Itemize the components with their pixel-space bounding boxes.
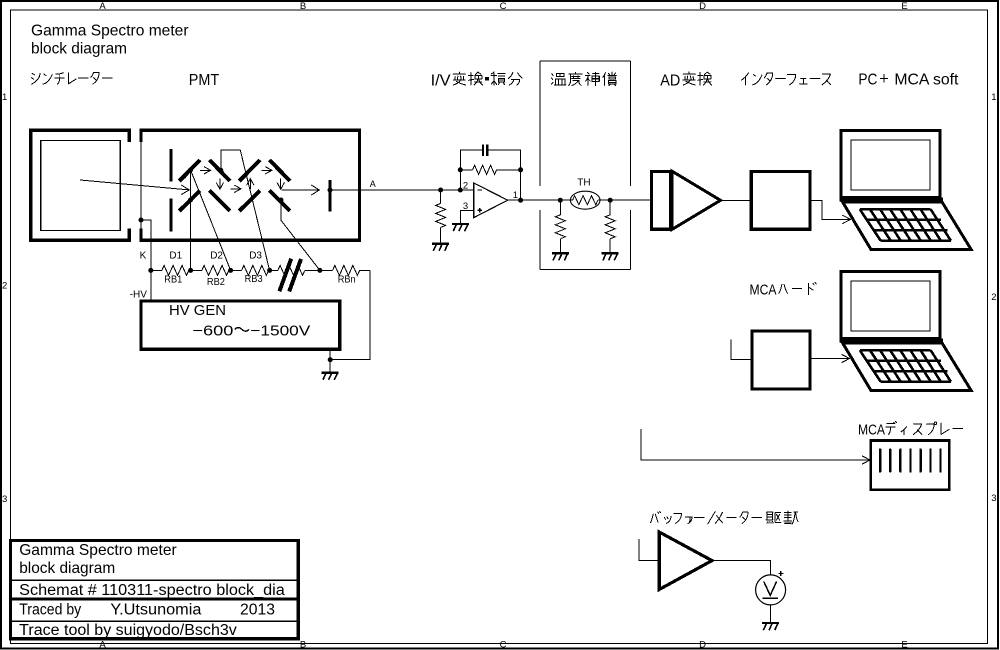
svg-text:A: A <box>99 1 106 12</box>
svg-text:TH: TH <box>577 178 590 189</box>
wire dynode1 to RB1/RB2 <box>190 170 192 270</box>
title block <box>11 541 299 639</box>
svg-text:D3: D3 <box>249 250 262 261</box>
wire AD to interface <box>721 199 752 201</box>
svg-text:Y.Utsunomia: Y.Utsunomia <box>110 601 201 618</box>
wire HV ground <box>329 351 331 372</box>
chain break marks <box>279 259 291 292</box>
junction opamp input <box>438 188 443 193</box>
svg-text:D: D <box>699 1 706 12</box>
scintillator crystal <box>41 140 120 230</box>
PC laptop 2 <box>840 272 971 391</box>
dynode top2 <box>210 160 231 181</box>
wire non-inverting input, pin 3 <box>461 210 474 223</box>
wire meter ground <box>770 605 772 623</box>
wire inverting input, pin 2 <box>460 189 474 191</box>
wire feedback riser <box>460 150 482 190</box>
svg-text:E: E <box>901 640 907 650</box>
svg-text:HV GEN: HV GEN <box>169 303 226 319</box>
svg-text:A: A <box>370 179 376 189</box>
svg-text:D: D <box>699 640 706 650</box>
svg-text:2: 2 <box>463 180 468 191</box>
wire last dynode <box>281 200 320 270</box>
ground HV <box>322 373 339 380</box>
svg-text:D1: D1 <box>169 250 182 261</box>
junction cathode <box>139 218 144 223</box>
wire MCA hard to PC <box>810 358 849 360</box>
wire chain return <box>330 270 370 359</box>
resistor compensation left <box>559 200 561 215</box>
resistor RB2 <box>202 265 229 275</box>
ground input load <box>432 244 449 251</box>
resistor RBn <box>333 265 360 275</box>
svg-text:−600: −600 <box>192 322 233 339</box>
label scintillator (katakana) <box>31 73 112 85</box>
PMT U1 housing <box>141 130 360 240</box>
junction anode <box>328 188 333 193</box>
svg-text:AD: AD <box>660 72 680 89</box>
buffer amplifier <box>659 532 712 590</box>
resistor compensation right <box>609 200 611 215</box>
svg-text:D2: D2 <box>210 250 223 261</box>
wire into MCA hard box <box>731 340 752 360</box>
svg-text:3: 3 <box>991 493 996 504</box>
svg-text:2: 2 <box>991 292 996 303</box>
MCA display block <box>871 441 950 490</box>
svg-text:block diagram: block diagram <box>31 40 127 57</box>
svg-text:RB3: RB3 <box>245 274 263 285</box>
svg-text:C: C <box>500 1 507 12</box>
resistor RB3 <box>242 265 269 275</box>
svg-text:Trace tool by suigyodo/Bsch3v: Trace tool by suigyodo/Bsch3v <box>19 622 237 639</box>
ground compensation left <box>552 253 569 260</box>
label temperature compensation <box>551 72 616 85</box>
svg-text:3: 3 <box>463 201 468 212</box>
junction feedback <box>458 167 463 172</box>
svg-text:2013: 2013 <box>240 601 275 618</box>
svg-text:B: B <box>300 640 306 650</box>
svg-text:I/V: I/V <box>431 72 451 89</box>
svg-text:E: E <box>901 1 907 12</box>
wire dynode to RB2/RB3 <box>191 170 231 270</box>
wire interface to PC <box>810 200 850 219</box>
svg-text:1: 1 <box>513 190 518 201</box>
wire K <box>141 220 151 299</box>
svg-text:2: 2 <box>2 281 7 292</box>
wire bias chain <box>151 269 162 271</box>
svg-text:1: 1 <box>991 92 996 103</box>
junction output <box>518 198 523 203</box>
svg-text:RBn: RBn <box>338 275 356 286</box>
svg-text:MCA soft: MCA soft <box>894 72 959 89</box>
voltmeter M1 <box>756 575 786 605</box>
MCA hard block <box>752 331 810 389</box>
svg-text:Gamma Spectro meter: Gamma Spectro meter <box>19 542 177 559</box>
wire anode out, node A <box>330 189 460 191</box>
svg-text:RB1: RB1 <box>164 275 182 286</box>
wire to MCA display <box>641 429 869 460</box>
junction dynode taps <box>188 168 193 173</box>
svg-text:Gamma Spectro meter: Gamma Spectro meter <box>31 23 189 40</box>
resistor hidden (chain break) <box>278 265 305 275</box>
AD converter block <box>652 172 671 230</box>
svg-text:A: A <box>99 640 106 650</box>
svg-text:−1500V: −1500V <box>250 322 310 339</box>
svg-text:PC: PC <box>858 72 877 89</box>
wire dynode2 hook <box>221 150 241 170</box>
svg-text:MCA: MCA <box>858 422 885 439</box>
svg-text:C: C <box>500 640 507 650</box>
scintillator housing <box>31 130 130 240</box>
svg-text:MCA: MCA <box>750 282 777 299</box>
svg-text:K: K <box>140 250 147 261</box>
svg-text:-HV: -HV <box>130 290 148 301</box>
svg-text:RB2: RB2 <box>207 277 225 288</box>
dynode bottom1 <box>179 191 200 212</box>
svg-text:B: B <box>300 1 306 12</box>
junction chain nodes <box>148 268 153 273</box>
svg-text:3: 3 <box>2 494 7 505</box>
HV generator box <box>141 301 340 349</box>
svg-text:Schemat # 110311-spectro block: Schemat # 110311-spectro block_dia <box>19 582 285 599</box>
PC laptop 1 <box>840 131 971 250</box>
wire TH <box>560 199 572 201</box>
label buffer/meter drive <box>651 511 762 524</box>
temperature compensation box <box>540 60 630 62</box>
interface block <box>751 172 810 230</box>
junction TH left/right <box>558 198 563 203</box>
electron path arrows <box>185 171 191 178</box>
svg-text:Traced by: Traced by <box>19 601 81 618</box>
dynode top1 <box>179 160 200 181</box>
ground pin 3 <box>452 224 469 231</box>
resistor input load <box>440 190 442 203</box>
junction HV ground <box>328 357 333 362</box>
dynode top3 <box>239 160 260 181</box>
ground compensation right <box>602 253 619 260</box>
MCA display bars <box>879 450 881 472</box>
dynode bottom2 <box>210 191 231 212</box>
label interface (katakana) <box>741 73 830 85</box>
dynode bottom4 <box>270 191 291 212</box>
dynode top4 <box>270 160 291 181</box>
wire buffer to meter <box>712 561 771 575</box>
photocathode K plates <box>170 149 173 182</box>
resistor RB1 <box>162 265 189 275</box>
wire buffer input <box>639 539 659 561</box>
wire PMT cathode side <box>140 141 142 230</box>
resistor feedback <box>460 169 472 171</box>
svg-text:PMT: PMT <box>189 72 220 89</box>
ground meter <box>762 623 779 630</box>
op-amp U1 <box>474 183 508 218</box>
anode plate <box>329 180 332 211</box>
capacitor feedback <box>482 144 484 156</box>
dynode bottom3 <box>239 191 260 212</box>
wire to AD <box>610 199 650 201</box>
gamma ray wire <box>80 180 189 190</box>
svg-text:1: 1 <box>2 92 7 103</box>
svg-text:block diagram: block diagram <box>19 560 115 577</box>
